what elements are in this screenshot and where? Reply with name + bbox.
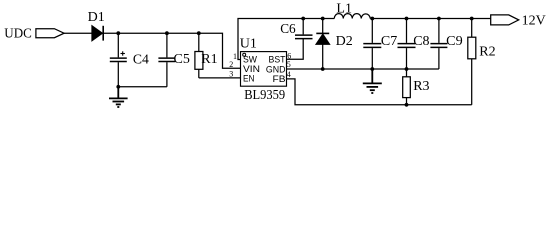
ground symbol right: [363, 69, 382, 93]
resistor R1: [195, 33, 218, 78]
capacitor C6: [280, 19, 312, 39]
node junction dot C7 bottom: [370, 67, 374, 71]
node junction dot D2 top: [321, 17, 325, 21]
svg-text:C7: C7: [381, 34, 397, 49]
svg-text:FB: FB: [273, 74, 286, 85]
svg-text:R3: R3: [413, 79, 429, 94]
resistor R3: [403, 69, 430, 105]
wire BST stub: [287, 39, 304, 60]
svg-text:C6: C6: [280, 22, 296, 37]
svg-text:R1: R1: [201, 52, 217, 67]
svg-text:4: 4: [287, 70, 291, 79]
wire main rail D1 to VIN corner: [103, 33, 240, 68]
node junction dot ground rail: [116, 85, 120, 89]
capacitor C5: [158, 33, 189, 87]
capacitor C8: [398, 19, 430, 70]
svg-text:D2: D2: [336, 34, 353, 49]
svg-text:3: 3: [229, 70, 233, 79]
svg-text:C5: C5: [174, 52, 190, 67]
diode D1: [88, 10, 105, 40]
svg-text:12V: 12V: [522, 13, 546, 28]
node junction dot C9 top: [437, 17, 441, 21]
wire FB stub and bottom rail: [287, 79, 472, 105]
svg-text:C9: C9: [446, 34, 463, 49]
node junction dot C6 top: [301, 17, 305, 21]
svg-text:C8: C8: [413, 34, 429, 49]
wire top rail L1 to output connector: [370, 18, 491, 20]
svg-text:EN: EN: [243, 74, 255, 85]
node junction dot C7 top: [370, 17, 374, 21]
output connector 12V: [491, 15, 519, 25]
svg-text:BL9359: BL9359: [244, 88, 285, 103]
ground symbol left: [109, 87, 128, 107]
node junction dot C8 top: [405, 17, 409, 21]
resistor R2: [468, 19, 496, 105]
svg-text:UDC: UDC: [4, 27, 32, 42]
node junction dot D2 bottom: [321, 67, 325, 71]
svg-text:1: 1: [233, 52, 237, 61]
wire SW net riser and top rail start: [238, 19, 303, 60]
svg-text:5: 5: [287, 60, 291, 69]
svg-text:C4: C4: [133, 53, 149, 68]
diode D2: [316, 19, 353, 70]
inductor L1: [334, 2, 370, 19]
wire EN net R1 to IC: [199, 77, 241, 79]
svg-text:2: 2: [229, 60, 233, 69]
svg-text:R2: R2: [479, 45, 495, 60]
wire top rail C6 to output: [303, 18, 334, 20]
node junction dot R1 top: [197, 31, 201, 35]
wire GND rail: [287, 68, 439, 70]
input connector UDC: [36, 29, 64, 38]
wire ground rail C4-C5: [118, 86, 167, 88]
capacitor C9: [430, 19, 462, 70]
node junction dot R3 bottom: [405, 103, 409, 107]
capacitor C7: [363, 19, 397, 70]
node junction dot C8 bottom / R3 top: [405, 67, 409, 71]
svg-text:D1: D1: [88, 10, 105, 25]
capacitor C4: [110, 33, 149, 87]
node junction dot C5 top: [165, 31, 169, 35]
svg-text:U1: U1: [240, 36, 257, 51]
wire input rail: [64, 32, 92, 34]
svg-text:L1: L1: [336, 2, 352, 17]
IC U1 BL9359: [240, 36, 287, 103]
node junction dot R2 top: [470, 17, 474, 21]
node junction dot C4 top: [116, 31, 120, 35]
